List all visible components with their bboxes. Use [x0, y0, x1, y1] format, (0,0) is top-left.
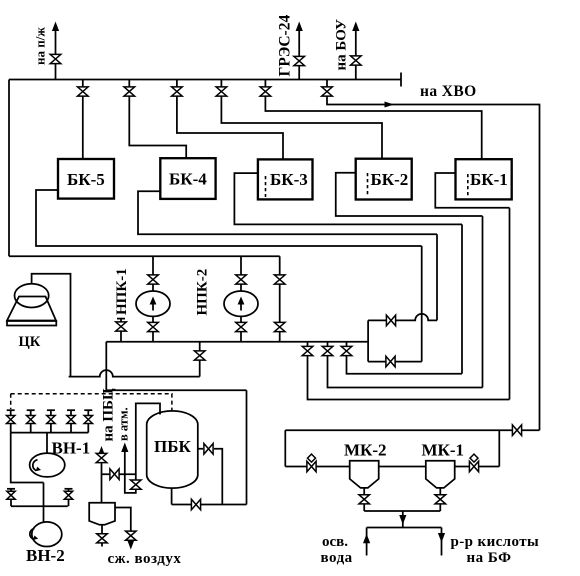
wire left line manifold down	[11, 433, 44, 483]
wire nest drop x346.5	[347, 342, 463, 374]
svg-text:на ПБЦ: на ПБЦ	[101, 388, 117, 441]
wire PBK bottom outlet	[172, 489, 247, 505]
tank BK-1	[456, 159, 512, 199]
wire MK feed right	[455, 466, 500, 468]
valve on bypass top	[386, 315, 395, 326]
wire MK feed middle	[379, 466, 426, 468]
manifold stub 4	[70, 410, 72, 432]
wire MK header y430	[285, 429, 539, 431]
wire drop to BK-2	[221, 80, 382, 159]
valve on nest drop x307.5	[302, 346, 313, 355]
wire osv voda riser	[366, 528, 368, 556]
svg-text:ВН-2: ВН-2	[26, 546, 65, 565]
valve on BK-3 drop	[172, 87, 183, 96]
manifold stub 3	[50, 410, 52, 432]
arrow down air inlet	[127, 540, 134, 550]
wire BK-1 outlet staircase	[435, 173, 509, 208]
wire air filter right branch	[115, 508, 131, 532]
wire na PBC riser	[101, 449, 103, 503]
wire BK-2 outlet staircase	[336, 173, 483, 216]
pump VN-1	[30, 453, 65, 477]
valve upper on bypass line	[274, 275, 285, 284]
node header end tick	[400, 73, 402, 87]
wire drop to BK-4	[129, 80, 186, 159]
dashed level line BK-2	[367, 173, 369, 196]
arrow down on center drop	[399, 515, 406, 525]
svg-text:на БОУ: на БОУ	[334, 19, 350, 71]
valve on right branch	[126, 531, 137, 540]
valve on BK-5 drop	[78, 87, 89, 96]
svg-text:вода: вода	[321, 550, 353, 566]
wire drop to BK-1	[265, 80, 481, 160]
valve row right stub	[68, 489, 70, 506]
valve below NPK-1	[148, 322, 159, 331]
wire VN-1 to VN-2	[43, 483, 45, 522]
wire manifold to VN-1	[46, 433, 48, 454]
wire lower return line with hop	[69, 370, 200, 376]
wire MK-2 outlet	[363, 488, 365, 511]
wire BK-5 outlet staircase	[36, 190, 422, 246]
valve above NPK-2	[236, 275, 247, 284]
cap stub x121	[117, 318, 125, 320]
wire line y390 to PBK loop	[106, 389, 246, 391]
wire PBK side outlet loop	[198, 449, 223, 505]
wire BK-4 right vertical to bypass top	[436, 234, 438, 320]
svg-text:БК-3: БК-3	[270, 170, 308, 189]
svg-text:НПК-1: НПК-1	[114, 268, 130, 315]
svg-text:ГРЭС-24: ГРЭС-24	[277, 15, 294, 77]
fan CK circle	[15, 284, 49, 308]
svg-text:на ХВО: на ХВО	[420, 83, 477, 100]
arrow na BOU	[352, 22, 359, 32]
wire riser GRES-24	[298, 30, 300, 80]
wire BK-1 right vertical	[509, 208, 511, 400]
svg-text:НПК-2: НПК-2	[195, 269, 211, 316]
dashed level line BK-3	[265, 176, 267, 197]
arrow on na HVO line	[385, 102, 395, 108]
valve on stub x121	[116, 322, 127, 331]
wire drop to BK-5	[82, 80, 84, 160]
arrow na PBC	[98, 446, 105, 456]
wire acid outlet	[441, 528, 443, 556]
vessel PBK	[147, 411, 198, 488]
valve on na p/zh riser	[50, 54, 61, 63]
svg-text:р-р кислоты: р-р кислоты	[451, 534, 540, 550]
svg-text:осв.: осв.	[322, 534, 348, 550]
tank BK-4	[160, 158, 215, 199]
wire MK feed left	[285, 466, 349, 468]
valve on branch	[110, 469, 119, 480]
tank BK-5	[58, 159, 114, 199]
wire MK header right drop	[498, 430, 500, 466]
svg-text:ЦК: ЦК	[19, 334, 41, 350]
wire MK center drop	[402, 511, 404, 528]
wire bus left end drop	[105, 342, 107, 391]
wire drop to na HVO line	[327, 80, 540, 431]
wire MK-1 outlet	[439, 488, 441, 511]
svg-text:в атм.: в атм.	[117, 407, 131, 441]
wire bypass loop top with hop	[368, 314, 437, 321]
valve on na BOU riser	[351, 56, 362, 65]
valve on vent line	[131, 480, 142, 489]
fan CK base	[7, 321, 56, 326]
svg-text:БК-5: БК-5	[67, 170, 105, 189]
svg-text:на п/ж: на п/ж	[33, 27, 48, 65]
svg-text:сж. воздух: сж. воздух	[108, 551, 182, 567]
dashed level line BK-1	[467, 174, 469, 196]
valve on GRES-24 riser	[294, 56, 305, 65]
wire MK header left drop	[284, 430, 286, 466]
svg-text:ПБК: ПБК	[154, 437, 191, 456]
wire BK-3 outlet staircase	[234, 173, 462, 224]
wire BK-4 outlet staircase	[138, 191, 437, 234]
manifold stub 1	[10, 410, 12, 432]
wire main header	[9, 79, 401, 81]
tank BK-2	[356, 159, 412, 200]
wire left drop from header to suction bus	[8, 80, 10, 257]
wire nest drop x307.5	[308, 342, 510, 400]
valve on PBK bottom outlet	[191, 499, 200, 510]
vessel air filter	[89, 503, 115, 525]
arrow v atm	[121, 443, 128, 453]
manifold stub 5	[87, 410, 89, 432]
valve on drop x199.7	[194, 351, 205, 360]
wire MK lower header	[367, 527, 442, 529]
wire BK-5 right vertical through hop to bypass bottom	[421, 246, 423, 362]
wire discharge bus	[106, 341, 368, 343]
wire riser na p/zh	[55, 30, 57, 80]
fan CK skirt	[7, 297, 56, 321]
arrow up osv voda	[363, 534, 370, 544]
arrow na p/zh	[52, 22, 59, 32]
svg-text:МК-2: МК-2	[344, 441, 387, 460]
valve on BK-4 drop	[124, 87, 135, 96]
wire bypass loop left	[367, 320, 369, 361]
valve on BK-1 drop	[260, 87, 271, 96]
valve on PBK side outlet	[204, 444, 213, 455]
wire MK collect line	[364, 510, 440, 512]
valve below NPK-2	[236, 322, 247, 331]
wire bypass loop bottom	[368, 361, 422, 363]
wire nest drop x327.5	[328, 342, 483, 388]
valve on na HVO drop	[322, 87, 333, 96]
svg-text:БК-2: БК-2	[371, 170, 409, 189]
manifold stub 2	[30, 410, 32, 432]
arrow GRES-24	[296, 22, 303, 32]
valve below MK-1	[435, 495, 446, 504]
wire air filter outlet	[101, 525, 103, 547]
wire riser na BOU	[355, 30, 357, 80]
wire valve row	[11, 505, 68, 507]
valve above NPK-1	[148, 275, 159, 284]
wire pump bypass line right	[279, 256, 281, 341]
tank BK-3	[258, 159, 313, 199]
pump NPK-1	[136, 291, 170, 316]
wire NPK-2 suction	[240, 256, 242, 291]
valve lower on bypass line	[274, 322, 285, 331]
wire suction bus	[9, 255, 280, 257]
wire branch to vent line	[102, 473, 136, 475]
valve on nest drop x327.5	[322, 346, 333, 355]
valve below MK-2	[359, 495, 370, 504]
wire PBK loop riser	[246, 390, 248, 504]
vessel MK-1	[426, 461, 455, 488]
valve below air filter	[97, 534, 108, 543]
wire BK-3 right vertical	[461, 224, 463, 373]
svg-text:МК-1: МК-1	[422, 441, 465, 460]
valve on MK header	[512, 425, 521, 436]
pump VN-2	[32, 522, 62, 547]
pump NPK-2	[224, 291, 258, 316]
svg-text:БК-1: БК-1	[470, 170, 508, 189]
valve on na PBC riser	[96, 453, 107, 462]
svg-text:на БФ: на БФ	[467, 550, 512, 566]
control valve MK-2	[307, 461, 316, 472]
valve on BK-2 drop	[216, 87, 227, 96]
wire NPK-2 discharge	[240, 316, 242, 341]
wire VN manifold	[11, 432, 89, 434]
arrow down acid	[438, 533, 445, 543]
wire valve drop x199.7	[199, 342, 201, 377]
valve on bypass bottom	[386, 356, 395, 367]
dashed na PBC line to PBK top	[11, 394, 172, 411]
wire stub line x121	[120, 319, 122, 342]
wire BK-2 right vertical	[482, 216, 484, 388]
wire drop to BK-3	[177, 80, 283, 160]
wire PBK vent line	[125, 403, 160, 493]
svg-text:БК-4: БК-4	[169, 170, 207, 189]
wire NPK-1 discharge	[152, 316, 154, 341]
wire NPK-1 suction	[152, 256, 154, 291]
valve on nest drop x346.5	[341, 346, 352, 355]
wire CK pipe	[32, 274, 71, 377]
valve row left stub	[10, 489, 12, 506]
vessel MK-2	[350, 461, 379, 488]
control valve MK-1	[469, 461, 478, 472]
